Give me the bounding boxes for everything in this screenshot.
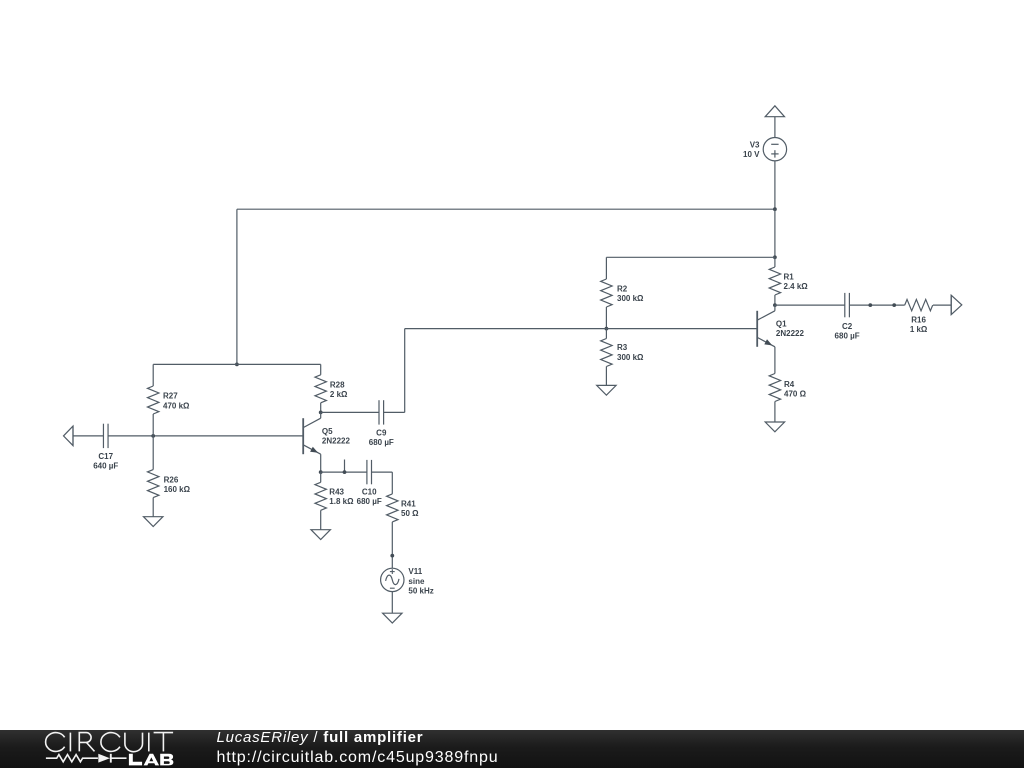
wire R27 to R28 top	[153, 363, 321, 365]
wire C9 up to base net	[404, 329, 406, 413]
wire V3 to top rail	[774, 161, 776, 209]
logo resistor squiggle	[46, 755, 98, 762]
wire Q1 collector to C2	[775, 304, 845, 306]
resistor R4 470	[769, 347, 806, 422]
logo wordmark LAB	[129, 754, 174, 766]
ground below R4	[765, 422, 784, 432]
transistor Q5 2N2222	[303, 412, 350, 472]
resistor R26 160k	[148, 436, 191, 517]
footer bar	[0, 730, 1024, 768]
resistor R3 300k	[601, 329, 644, 386]
node junction top rail	[773, 207, 777, 211]
node junction out a	[868, 303, 872, 307]
wire C10 to R41	[372, 472, 393, 494]
node junction R2 R3 base	[605, 327, 609, 331]
node junction R1 top	[773, 255, 777, 259]
output terminal	[951, 295, 962, 314]
resistor R43 1.8k	[315, 472, 354, 530]
wire left drop	[236, 209, 238, 364]
input terminal	[64, 426, 74, 446]
ground below R26	[144, 517, 163, 527]
node junction Q5 collector	[319, 411, 323, 415]
node junction out b	[892, 303, 896, 307]
resistor R27 470k	[148, 364, 191, 436]
capacitor C2 680uF	[835, 293, 860, 341]
resistor R1 2.4k	[769, 257, 808, 305]
capacitor C17 640uF	[93, 424, 118, 471]
wire C17 to Q5 base	[108, 435, 303, 437]
footer title text	[217, 730, 424, 747]
wire Q1 base net	[405, 328, 758, 330]
wire top rail horizontal	[237, 208, 775, 210]
node junction Q1 collector	[773, 303, 777, 307]
node junction R41 V11	[390, 554, 394, 558]
wire input to C17	[73, 435, 103, 437]
resistor R16 1k	[905, 299, 933, 334]
resistor R28 2k	[315, 364, 348, 412]
wire rail to R2	[606, 256, 775, 258]
wire V11 to ground	[391, 592, 393, 614]
resistor R41 50	[387, 494, 420, 568]
ground below R43	[311, 530, 330, 540]
transistor Q1 2N2222	[757, 305, 804, 347]
resistor R2 300k	[601, 257, 644, 328]
wire Q5 emitter to C10	[321, 471, 367, 473]
wire stub above emitter net	[344, 460, 346, 473]
wire C2 to R16	[849, 304, 904, 306]
capacitor C9 680uF	[369, 400, 394, 447]
node junction stub	[343, 470, 347, 474]
ground below R3	[597, 385, 616, 395]
wire Q5 collector to C9	[321, 411, 379, 413]
node junction left drop	[235, 363, 239, 367]
wire V3 down to R1/R2 rail	[774, 209, 776, 257]
logo diode	[98, 754, 126, 763]
voltage source V3	[743, 138, 787, 161]
ground below V11	[383, 613, 402, 623]
node junction Q5 emitter	[319, 470, 323, 474]
node junction input bias	[151, 434, 155, 438]
wire C9 to corner	[384, 411, 405, 413]
voltage source V11 sine	[381, 567, 434, 595]
power flag VCC	[765, 106, 784, 138]
wire R16 to output terminal	[933, 304, 951, 306]
capacitor C10 680uF	[357, 460, 382, 506]
logo wordmark CIRCUIT	[46, 733, 174, 752]
